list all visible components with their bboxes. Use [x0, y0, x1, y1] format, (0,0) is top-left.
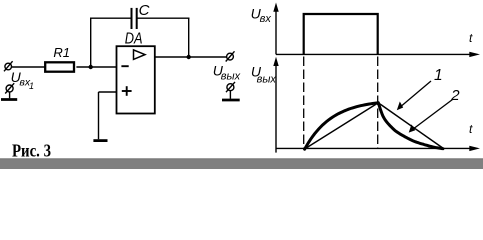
op-amp inverting input marker (minus) — [121, 65, 128, 67]
svg-text:t: t — [469, 122, 473, 136]
axis Uвх vertical (top plot) — [273, 3, 278, 55]
leader arrow to curve 1 — [397, 81, 431, 110]
wire non-inverting input — [99, 92, 117, 139]
svg-text:t: t — [469, 31, 473, 45]
terminal output lower — [226, 82, 235, 99]
svg-text:DA: DA — [125, 30, 143, 47]
dashed line t1 — [303, 57, 305, 150]
op-amp output triangle symbol — [134, 50, 146, 60]
curve 1 falling segment (thin linear) — [378, 103, 443, 149]
wire input to R1 — [12, 66, 46, 68]
wire feedback top left segment — [90, 17, 132, 19]
capacitor C — [132, 8, 137, 29]
svg-text:вх: вх — [260, 13, 272, 25]
dashed line t2 — [377, 57, 379, 150]
terminal input lower — [5, 83, 14, 98]
axis t horizontal (bottom plot) — [276, 146, 480, 151]
curve 2 rising segment (thick exponential) — [305, 103, 379, 149]
axis Uвых vertical (bottom plot) — [273, 57, 278, 153]
input pulse waveform — [304, 14, 378, 54]
axis t horizontal (top plot) — [276, 52, 480, 57]
svg-text:R1: R1 — [53, 45, 70, 60]
svg-text:вых: вых — [257, 73, 277, 85]
svg-text:Рис. 3: Рис. 3 — [12, 141, 51, 161]
wire feedback left vertical — [90, 18, 92, 68]
ground (non-inverting input) — [93, 139, 107, 142]
wire feedback right vertical — [188, 18, 190, 58]
svg-text:2: 2 — [450, 87, 460, 104]
bottom gray bar — [0, 158, 483, 169]
svg-text:C: C — [139, 2, 150, 19]
label Uвых (plot) — [251, 64, 277, 86]
wire op-amp output — [155, 56, 227, 58]
wire R1 to op-amp inverting input — [76, 66, 116, 68]
op-amp DA (body) — [117, 46, 155, 113]
label Uвых (circuit) — [213, 63, 241, 83]
ground (input) — [1, 98, 17, 101]
terminal input upper (signal) — [4, 61, 13, 71]
op-amp non-inverting input marker (plus) — [122, 86, 132, 96]
resistor R1 — [45, 62, 74, 71]
node B (junction output / feedback) — [187, 55, 191, 59]
curve 1 rising segment (thin linear ramp) — [305, 103, 379, 149]
label Uвх1 — [11, 69, 34, 91]
leader arrow to curve 2 — [409, 100, 453, 133]
wire feedback top right segment — [137, 17, 190, 19]
label Uвх (plot) — [251, 6, 272, 26]
curve 2 falling segment (thick exponential decay) — [378, 103, 443, 149]
node A (junction R1 / feedback) — [89, 65, 93, 69]
terminal output upper (Uвых) — [226, 51, 235, 61]
svg-text:1: 1 — [29, 81, 34, 91]
svg-text:вых: вых — [221, 70, 241, 82]
ground (output) — [222, 99, 240, 102]
svg-text:1: 1 — [434, 67, 443, 84]
